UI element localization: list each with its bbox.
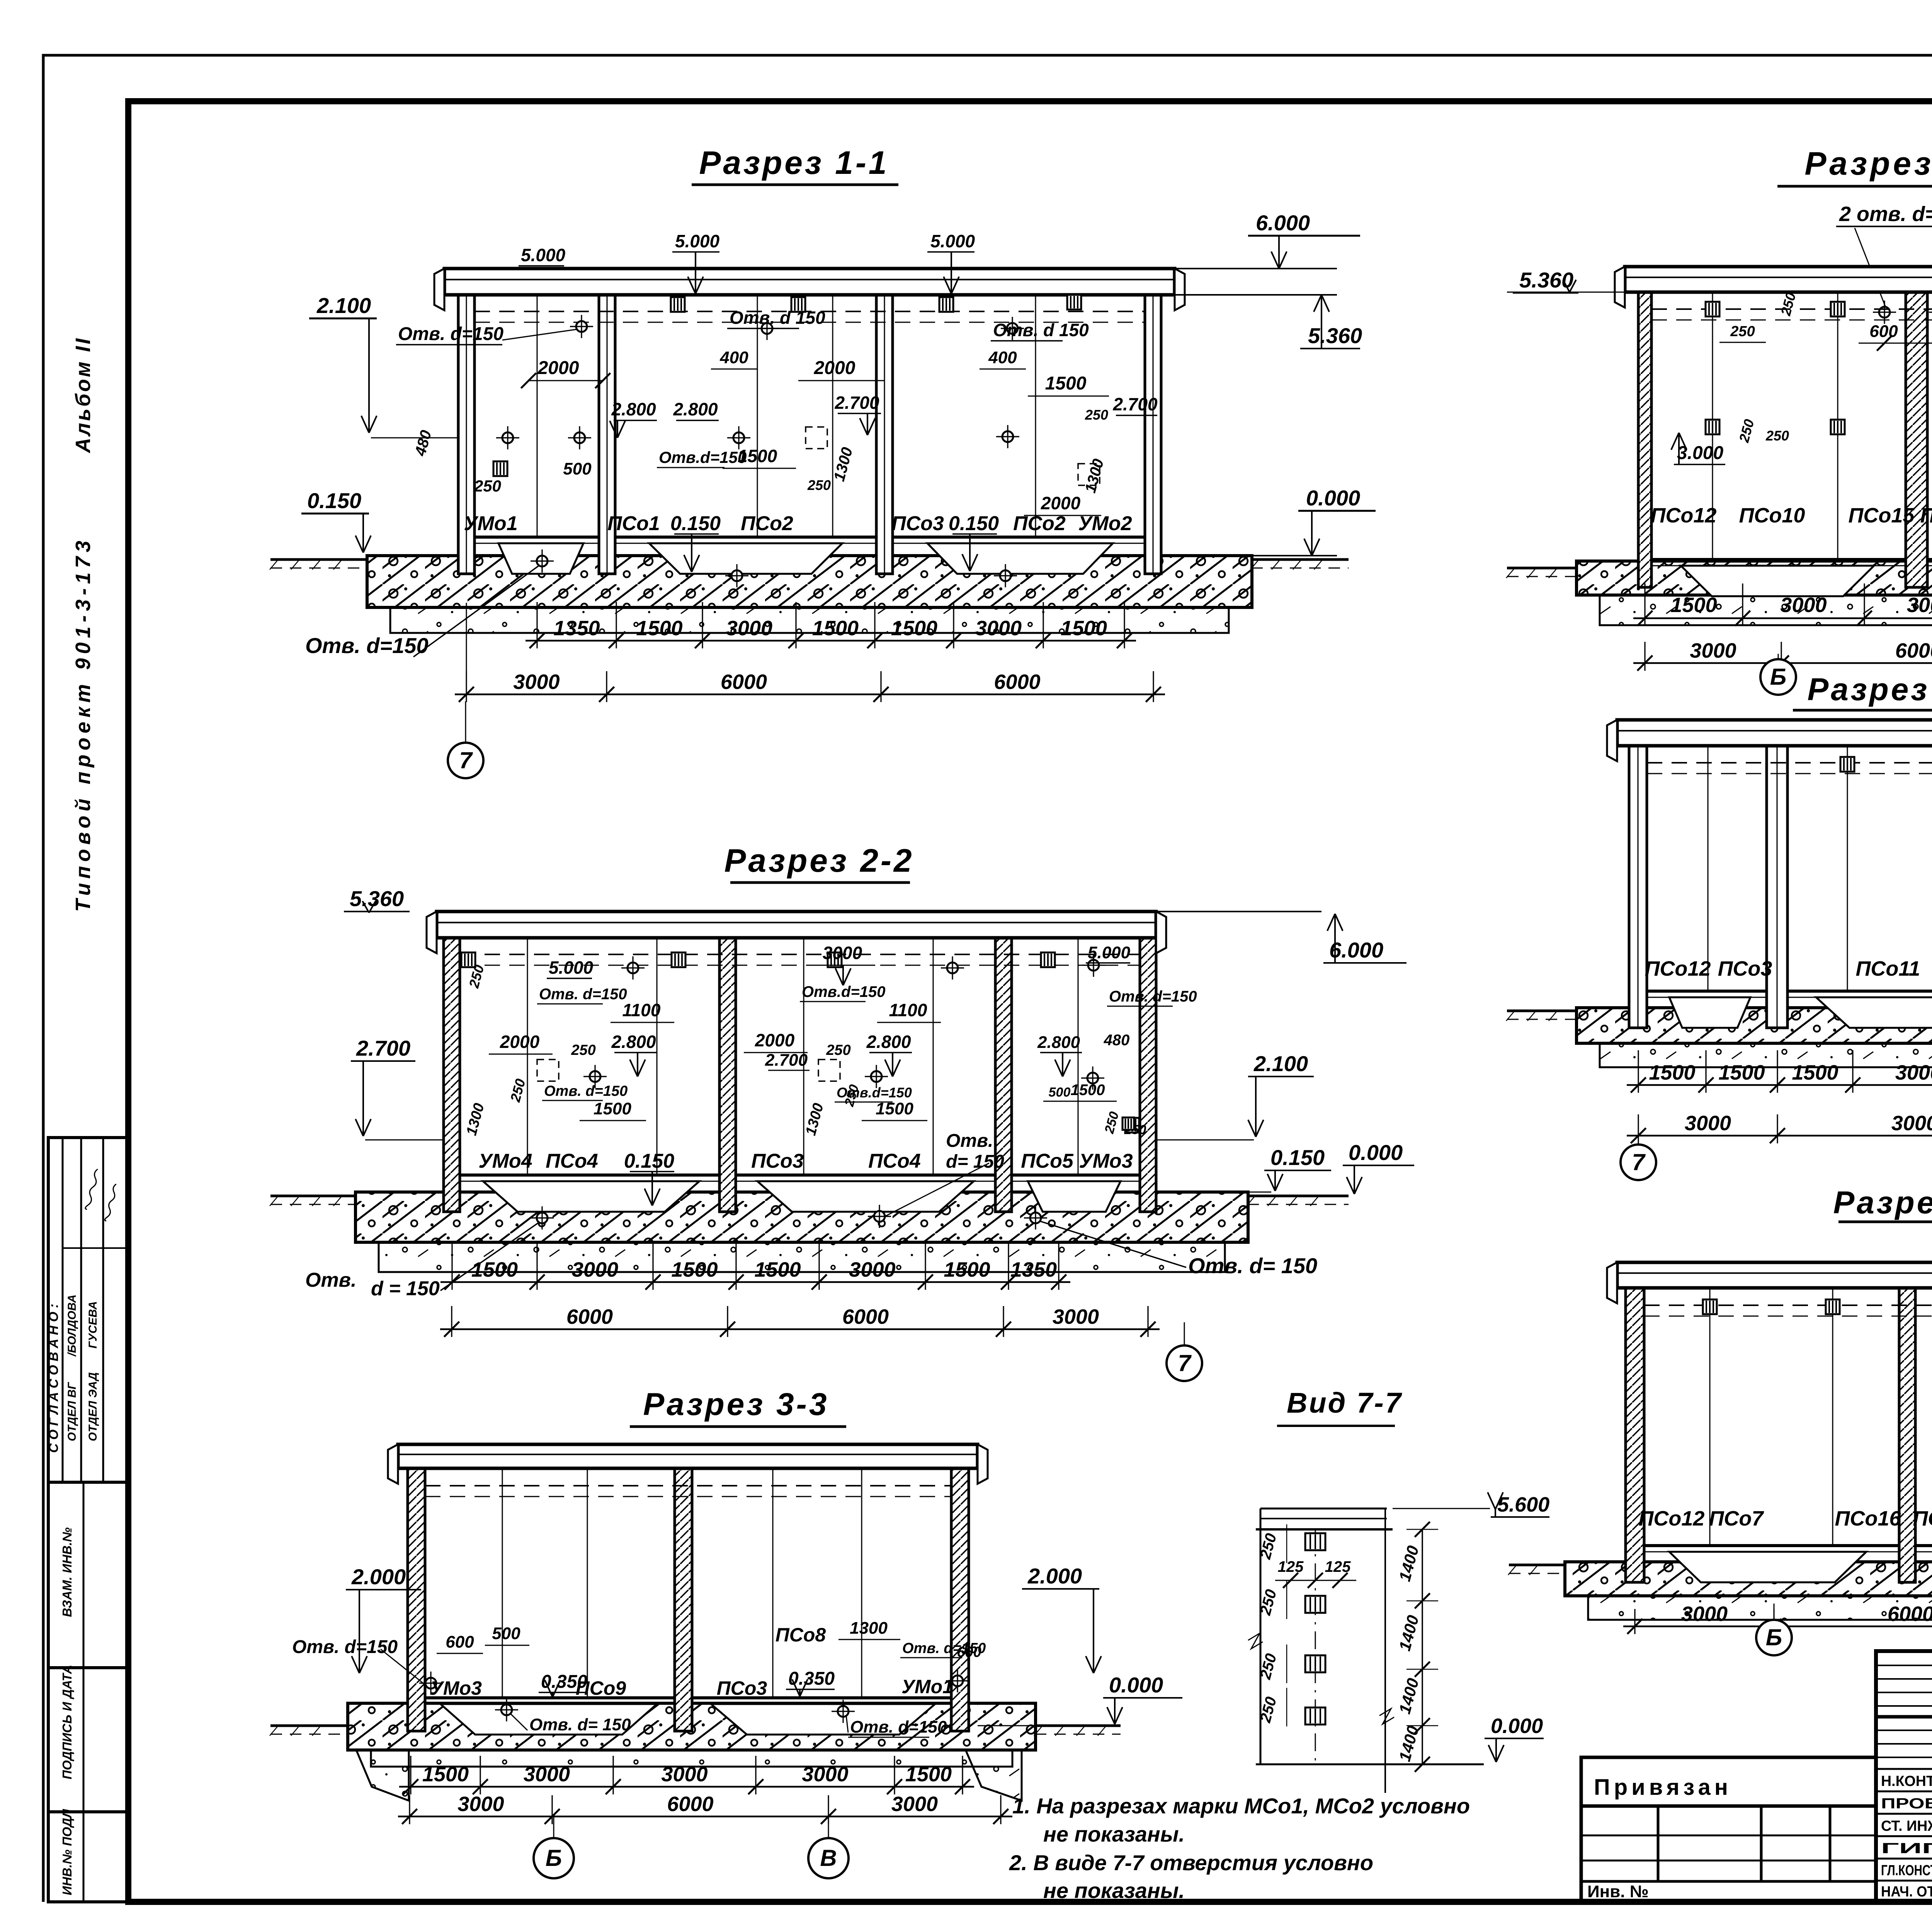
- svg-text:3000: 3000: [572, 1258, 618, 1281]
- svg-text:Отв. d=150: Отв. d=150: [539, 986, 627, 1003]
- svg-text:Отв. d=150: Отв. d=150: [305, 633, 429, 658]
- svg-text:0.000: 0.000: [1349, 1140, 1403, 1165]
- svg-text:3000: 3000: [457, 1793, 504, 1816]
- svg-text:ОТДЕЛ ЭАД: ОТДЕЛ ЭАД: [87, 1372, 99, 1441]
- svg-text:500: 500: [1049, 1085, 1071, 1100]
- svg-text:/БОЛДОВА: /БОЛДОВА: [66, 1294, 78, 1357]
- svg-text:250: 250: [474, 477, 501, 495]
- svg-text:ВЗАМ. ИНВ.№: ВЗАМ. ИНВ.№: [60, 1527, 74, 1617]
- svg-text:1100: 1100: [889, 1000, 927, 1020]
- svg-text:600: 600: [1869, 322, 1898, 341]
- svg-text:2000: 2000: [1041, 493, 1081, 513]
- svg-text:2.700: 2.700: [834, 393, 879, 413]
- svg-text:ПСо9: ПСо9: [576, 1677, 626, 1699]
- svg-text:0.000: 0.000: [1491, 1714, 1543, 1738]
- svg-text:2.000: 2.000: [351, 1565, 406, 1589]
- svg-text:1500: 1500: [1670, 594, 1717, 617]
- svg-text:1500: 1500: [1718, 1061, 1765, 1084]
- svg-text:6.000: 6.000: [1256, 211, 1310, 235]
- svg-text:ГИП: ГИП: [1881, 1840, 1932, 1857]
- svg-text:3000: 3000: [1053, 1305, 1099, 1328]
- svg-text:3.000: 3.000: [1677, 443, 1723, 463]
- svg-text:Отв. d= 150: Отв. d= 150: [529, 1715, 631, 1734]
- svg-text:1500: 1500: [944, 1258, 990, 1281]
- svg-text:3000: 3000: [1891, 1112, 1932, 1135]
- svg-text:6000: 6000: [721, 670, 767, 694]
- svg-text:400: 400: [988, 348, 1017, 367]
- svg-text:УМо4: УМо4: [478, 1150, 532, 1172]
- svg-text:1300: 1300: [850, 1619, 888, 1638]
- svg-text:6000: 6000: [667, 1793, 713, 1816]
- svg-text:0.000: 0.000: [1109, 1673, 1163, 1697]
- svg-text:1500: 1500: [594, 1099, 631, 1118]
- svg-text:3000: 3000: [849, 1258, 895, 1281]
- svg-text:600: 600: [446, 1633, 474, 1651]
- svg-text:1500: 1500: [636, 617, 682, 640]
- svg-text:3000: 3000: [1780, 594, 1827, 617]
- svg-text:1500: 1500: [812, 617, 859, 640]
- svg-text:3000: 3000: [802, 1763, 848, 1786]
- svg-text:3000: 3000: [823, 943, 862, 963]
- svg-text:1500: 1500: [422, 1763, 469, 1786]
- svg-text:1500: 1500: [671, 1258, 718, 1281]
- svg-text:1. На разрезах марки МСо1,: 1. На разрезах марки МСо1, МСо2 условно: [1012, 1794, 1470, 1818]
- svg-text:Разрез 1-1: Разрез 1-1: [699, 145, 889, 181]
- svg-text:2000: 2000: [755, 1030, 795, 1050]
- svg-text:5.360: 5.360: [350, 886, 404, 911]
- svg-text:250: 250: [807, 477, 831, 493]
- svg-text:1500: 1500: [1649, 1061, 1695, 1084]
- svg-text:Отв.: Отв.: [946, 1131, 993, 1151]
- svg-text:5.000: 5.000: [1088, 943, 1131, 962]
- svg-text:1500: 1500: [891, 617, 937, 640]
- svg-text:250: 250: [571, 1042, 595, 1058]
- svg-text:1500: 1500: [1792, 1061, 1838, 1084]
- svg-text:Разрез 2-2: Разрез 2-2: [724, 842, 914, 879]
- svg-text:125: 125: [1278, 1558, 1304, 1575]
- svg-text:3000: 3000: [1690, 639, 1736, 662]
- svg-text:Отв. d 150: Отв. d 150: [730, 308, 825, 328]
- svg-text:Отв. d=150: Отв. d=150: [850, 1718, 947, 1736]
- svg-text:7: 7: [1632, 1149, 1646, 1175]
- svg-text:2.100: 2.100: [1253, 1051, 1308, 1076]
- svg-text:Отв. d=150: Отв. d=150: [544, 1083, 628, 1099]
- svg-text:ПСо4: ПСо4: [546, 1150, 598, 1172]
- svg-text:УМо1: УМо1: [464, 512, 517, 535]
- svg-text:1100: 1100: [622, 1000, 661, 1020]
- svg-text:6000: 6000: [1888, 1602, 1932, 1626]
- svg-text:ПСо12: ПСо12: [1651, 504, 1717, 527]
- svg-text:2000: 2000: [500, 1032, 540, 1052]
- svg-text:Отв.d=150: Отв.d=150: [659, 448, 747, 466]
- svg-text:500: 500: [563, 459, 592, 478]
- svg-text:6000: 6000: [994, 670, 1040, 694]
- svg-text:6000: 6000: [1895, 639, 1932, 662]
- svg-text:3000: 3000: [513, 670, 560, 694]
- svg-text:не показаны.: не показаны.: [1043, 1878, 1185, 1903]
- svg-text:3000: 3000: [661, 1763, 707, 1786]
- svg-text:С О Г Л А С О В А Н О :: С О Г Л А С О В А Н О :: [46, 1304, 61, 1453]
- svg-text:3000: 3000: [1681, 1602, 1728, 1626]
- svg-text:1350: 1350: [553, 617, 600, 640]
- svg-text:ПСо15: ПСо15: [1849, 504, 1915, 527]
- svg-text:ПРОВ.: ПРОВ.: [1881, 1796, 1932, 1812]
- svg-text:250: 250: [826, 1042, 850, 1058]
- svg-text:Альбом II: Альбом II: [71, 337, 95, 454]
- svg-text:ПСо3: ПСо3: [751, 1150, 804, 1172]
- svg-text:400: 400: [719, 348, 748, 367]
- svg-text:2.700: 2.700: [1112, 394, 1158, 414]
- svg-text:Отв. d= 150: Отв. d= 150: [1188, 1253, 1317, 1278]
- svg-text:ПСо1: ПСо1: [607, 512, 660, 535]
- svg-text:1500: 1500: [471, 1258, 518, 1281]
- svg-text:не показаны.: не показаны.: [1043, 1822, 1185, 1846]
- svg-text:ПСо8: ПСо8: [776, 1624, 826, 1646]
- svg-text:УМо3: УМо3: [430, 1677, 482, 1699]
- svg-text:Б: Б: [546, 1845, 562, 1871]
- svg-text:Отв.d=150: Отв.d=150: [802, 983, 885, 1000]
- svg-text:250: 250: [1085, 407, 1108, 423]
- svg-text:5.000: 5.000: [675, 231, 720, 251]
- svg-text:Разрез 3-3: Разрез 3-3: [643, 1387, 829, 1422]
- svg-text:3000: 3000: [1685, 1112, 1731, 1135]
- svg-text:0.000: 0.000: [1306, 486, 1360, 510]
- svg-text:1500: 1500: [1071, 1082, 1105, 1099]
- svg-text:ПСо16: ПСо16: [1835, 1507, 1901, 1530]
- svg-text:Отв. d=150: Отв. d=150: [292, 1637, 398, 1657]
- svg-text:ПСо5: ПСо5: [1021, 1150, 1074, 1172]
- svg-text:2.800: 2.800: [673, 399, 718, 419]
- svg-text:Вид 7-7: Вид 7-7: [1287, 1387, 1403, 1419]
- svg-text:2.800: 2.800: [611, 1032, 656, 1052]
- svg-text:5.360: 5.360: [1308, 323, 1362, 348]
- svg-text:d= 150: d= 150: [946, 1151, 1004, 1172]
- svg-text:2.700: 2.700: [765, 1051, 808, 1070]
- svg-text:3000: 3000: [726, 617, 772, 640]
- svg-text:ПСо3: ПСо3: [891, 512, 944, 535]
- svg-text:0.150: 0.150: [670, 512, 721, 535]
- svg-text:Б: Б: [1766, 1624, 1782, 1650]
- svg-text:2 отв. d=150: 2 отв. d=150: [1839, 202, 1932, 226]
- svg-text:ПСо3: ПСо3: [717, 1677, 767, 1699]
- svg-text:Привязан: Привязан: [1594, 1775, 1732, 1800]
- svg-text:2000: 2000: [814, 358, 855, 378]
- svg-text:2.700: 2.700: [356, 1036, 410, 1060]
- svg-text:3000: 3000: [891, 1793, 938, 1816]
- svg-text:УМо1: УМо1: [901, 1676, 953, 1697]
- svg-text:ПСо12: ПСо12: [1645, 957, 1711, 980]
- svg-text:2.800: 2.800: [611, 399, 656, 419]
- svg-text:1500: 1500: [876, 1099, 913, 1118]
- svg-text:7: 7: [1178, 1350, 1192, 1376]
- svg-text:Типовой проект 901-3-173: Типовой проект 901-3-173: [71, 536, 95, 912]
- svg-text:ПСо14: ПСо14: [1920, 504, 1932, 527]
- svg-text:В: В: [820, 1845, 837, 1871]
- svg-text:ПСо12: ПСо12: [1639, 1507, 1705, 1530]
- svg-text:Отв. d 150: Отв. d 150: [993, 320, 1089, 340]
- svg-text:7: 7: [459, 747, 473, 773]
- svg-text:3000: 3000: [1895, 1061, 1932, 1084]
- svg-text:Н.КОНТР: Н.КОНТР: [1881, 1773, 1932, 1789]
- svg-text:ПСо10: ПСо10: [1739, 504, 1805, 527]
- svg-text:2.100: 2.100: [316, 293, 371, 318]
- svg-text:6.000: 6.000: [1329, 938, 1383, 962]
- svg-text:1350: 1350: [1010, 1258, 1057, 1281]
- svg-text:3000: 3000: [524, 1763, 570, 1786]
- svg-text:ПСо3: ПСо3: [1718, 957, 1772, 980]
- svg-text:0.150: 0.150: [1270, 1145, 1325, 1170]
- svg-text:2.000: 2.000: [1027, 1564, 1082, 1588]
- svg-text:5.600: 5.600: [1497, 1493, 1549, 1516]
- svg-text:5.000: 5.000: [549, 957, 594, 978]
- svg-text:ИНВ.№ ПОДЛ: ИНВ.№ ПОДЛ: [60, 1809, 74, 1895]
- svg-text:Инв. №: Инв. №: [1587, 1882, 1649, 1901]
- svg-text:УМо3: УМо3: [1079, 1150, 1133, 1172]
- svg-text:5.000: 5.000: [521, 245, 566, 265]
- svg-text:2.800: 2.800: [1037, 1033, 1080, 1052]
- svg-text:ПСо2: ПСо2: [741, 512, 793, 535]
- svg-text:5.360: 5.360: [1519, 268, 1573, 292]
- svg-text:5.000: 5.000: [930, 231, 975, 251]
- svg-text:Отв.: Отв.: [305, 1269, 357, 1291]
- svg-text:НАЧ. ОТД: НАЧ. ОТД: [1881, 1884, 1932, 1900]
- svg-text:Разрез 6-6: Разрез 6-6: [1833, 1185, 1932, 1220]
- svg-text:ПОДПИСЬ И ДАТА: ПОДПИСЬ И ДАТА: [60, 1665, 74, 1779]
- svg-text:ПСо17: ПСо17: [1913, 1507, 1932, 1530]
- svg-text:1500: 1500: [905, 1763, 952, 1786]
- svg-text:250: 250: [1730, 323, 1755, 340]
- svg-text:ОТДЕЛ ВГ: ОТДЕЛ ВГ: [66, 1382, 78, 1441]
- svg-text:1500: 1500: [1061, 617, 1107, 640]
- svg-text:Отв. d=150: Отв. d=150: [398, 324, 503, 344]
- svg-text:d = 150: d = 150: [371, 1277, 440, 1300]
- svg-text:ГЛ.КОНСТР: ГЛ.КОНСТР: [1881, 1862, 1932, 1879]
- svg-text:Разрез 4-4: Разрез 4-4: [1804, 145, 1932, 182]
- svg-text:1500: 1500: [738, 446, 777, 466]
- svg-text:1500: 1500: [754, 1258, 801, 1281]
- svg-text:6000: 6000: [566, 1305, 613, 1328]
- svg-text:Отв.d=150: Отв.d=150: [837, 1085, 912, 1100]
- svg-text:2000: 2000: [537, 358, 579, 378]
- svg-text:250: 250: [1765, 428, 1789, 444]
- svg-text:1500: 1500: [1045, 373, 1087, 394]
- svg-text:3000: 3000: [975, 617, 1022, 640]
- svg-text:Разрез 5-5: Разрез 5-5: [1808, 672, 1932, 707]
- svg-text:Б: Б: [1770, 664, 1786, 690]
- svg-text:0.150: 0.150: [949, 512, 999, 535]
- svg-text:3000: 3000: [1907, 594, 1932, 617]
- svg-text:ПСо7: ПСо7: [1709, 1507, 1765, 1530]
- svg-text:500: 500: [492, 1624, 520, 1643]
- svg-text:6000: 6000: [842, 1305, 889, 1328]
- svg-text:ПСо11: ПСо11: [1856, 957, 1920, 980]
- svg-text:2. В виде 7-7 отверстия: 2. В виде 7-7 отверстия условно: [1009, 1850, 1373, 1875]
- svg-text:2.800: 2.800: [866, 1032, 911, 1052]
- svg-text:СТ. ИНЖ.: СТ. ИНЖ.: [1881, 1818, 1932, 1834]
- svg-text:ГУСЕВА: ГУСЕВА: [87, 1301, 99, 1349]
- svg-text:0.150: 0.150: [307, 488, 361, 513]
- svg-text:ПСо4: ПСо4: [868, 1150, 921, 1172]
- svg-text:480: 480: [1104, 1032, 1130, 1049]
- svg-text:Отв. d=150: Отв. d=150: [1109, 988, 1197, 1005]
- svg-text:600: 600: [957, 1644, 981, 1660]
- svg-text:0.150: 0.150: [624, 1150, 674, 1172]
